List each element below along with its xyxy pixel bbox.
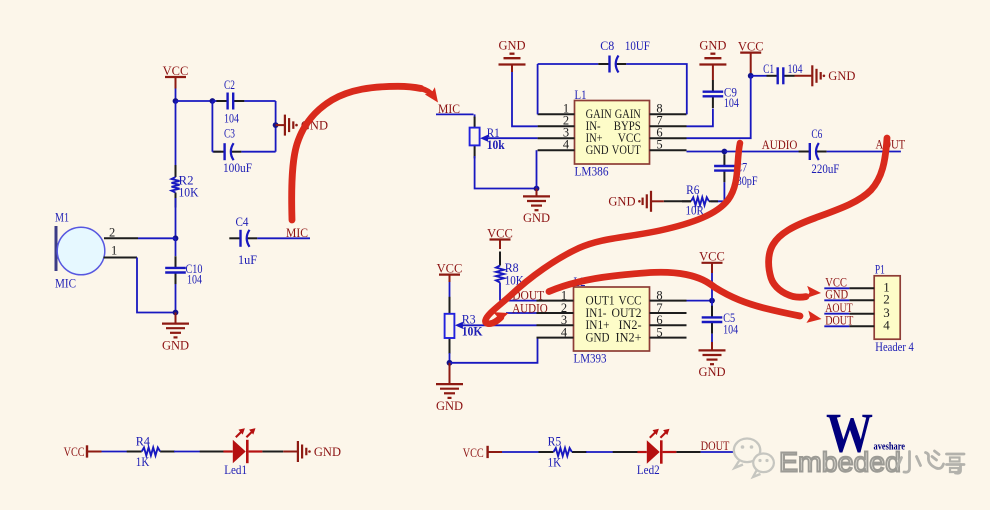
svg-text:LM386: LM386 bbox=[575, 165, 609, 179]
capacitor C2 bbox=[216, 93, 244, 110]
capacitor C5 bbox=[702, 306, 723, 334]
svg-text:GND: GND bbox=[523, 211, 550, 225]
ground GND (C5) bbox=[698, 342, 725, 379]
wire VCC rail down to node A bbox=[175, 89, 177, 102]
ground GND (above C9) bbox=[699, 39, 726, 81]
capacitor C8 bbox=[598, 56, 626, 73]
wire U1 pin7 to C9 bbox=[687, 109, 713, 127]
svg-text:R5: R5 bbox=[548, 434, 562, 448]
svg-text:VCC: VCC bbox=[437, 261, 463, 275]
capacitor C4 bbox=[229, 230, 257, 247]
svg-text:C2: C2 bbox=[224, 78, 235, 92]
wire R1 bottom to node F bbox=[475, 156, 537, 189]
node A junction (VCC rail / C2 branch) bbox=[173, 98, 179, 104]
svg-text:5: 5 bbox=[656, 325, 662, 339]
svg-text:104: 104 bbox=[788, 62, 804, 76]
ground GND (U1 pin2) bbox=[498, 39, 525, 73]
wire R3 bottom to node I bbox=[449, 353, 451, 363]
svg-text:DOUT: DOUT bbox=[701, 439, 730, 453]
wire mic pin2 to node D bbox=[138, 237, 176, 239]
svg-text:MIC: MIC bbox=[55, 277, 76, 291]
wire VCC to R5 bbox=[502, 451, 540, 453]
svg-text:GND: GND bbox=[699, 39, 726, 53]
svg-text:C1: C1 bbox=[763, 62, 774, 76]
wire mic pin1 down and right to node E bbox=[137, 258, 176, 313]
mic pin 2 stub bbox=[104, 237, 138, 239]
wire C2/C3 loop right edge bbox=[275, 101, 277, 152]
wire GND down to U1 pin2 bbox=[512, 72, 538, 126]
svg-text:10k: 10k bbox=[487, 138, 505, 152]
wire VCC to R4 bbox=[102, 451, 128, 453]
wire U1 pin4 down to node F bbox=[536, 150, 538, 188]
red annotation curve A (MIC to MIC) bbox=[292, 86, 443, 220]
wire node H to C6 bbox=[724, 151, 800, 153]
wire Led2 to DOUT net bbox=[701, 451, 735, 453]
wire VCC down to R3 bbox=[449, 282, 451, 297]
svg-text:Led1: Led1 bbox=[224, 463, 247, 477]
svg-text:AUDIO: AUDIO bbox=[762, 138, 798, 152]
svg-text:MIC: MIC bbox=[286, 226, 308, 240]
logo WeChat icon bbox=[734, 439, 774, 478]
svg-text:4: 4 bbox=[563, 138, 570, 152]
logo Embeded text bbox=[779, 447, 901, 478]
svg-text:VCC: VCC bbox=[163, 64, 189, 78]
node B junction (C2/C3 loop top-left) bbox=[210, 98, 216, 104]
connector P1 Header 4 body bbox=[874, 276, 900, 339]
svg-text:10K: 10K bbox=[179, 186, 199, 200]
microphone M1 bbox=[56, 226, 105, 275]
svg-text:5: 5 bbox=[656, 138, 662, 152]
ground GND (R3) bbox=[436, 363, 463, 413]
wire node A down to R2 bbox=[175, 101, 177, 177]
capacitor C10 bbox=[165, 256, 186, 284]
wire R2 down to node D bbox=[175, 198, 177, 238]
capacitor C9 bbox=[703, 80, 724, 108]
port VCC (Led1) bbox=[64, 445, 102, 459]
capacitor C1 bbox=[767, 67, 795, 84]
wire C3 bottom row left bbox=[212, 151, 221, 153]
power VCC (comparator supply) bbox=[699, 250, 725, 273]
svg-text:C8: C8 bbox=[600, 39, 614, 53]
wire MIC down to R1 bbox=[474, 114, 476, 118]
wire C7 down to R6 bbox=[711, 182, 724, 201]
svg-text:R4: R4 bbox=[136, 434, 151, 448]
wire C2 top row left bbox=[212, 100, 223, 102]
svg-text:100uF: 100uF bbox=[223, 161, 252, 175]
comparator U2 LM393 body bbox=[574, 287, 650, 351]
node F junction (R1 / U1 pin4 / GND) bbox=[534, 186, 540, 192]
svg-text:R6: R6 bbox=[686, 183, 699, 197]
wire node G to C1 bbox=[751, 75, 767, 77]
svg-text:GND: GND bbox=[162, 338, 189, 352]
capacitor C6 bbox=[799, 143, 827, 160]
svg-text:4: 4 bbox=[561, 325, 568, 339]
wire VCC down to node J bbox=[711, 273, 713, 301]
resistor R2 bbox=[172, 165, 180, 208]
wire R5 to Led2 bbox=[586, 451, 614, 453]
wire MIC net stub bbox=[436, 113, 474, 115]
svg-text:GND: GND bbox=[498, 39, 525, 53]
red annotation curve B (AUDIO to comparator AUDIO) bbox=[485, 143, 740, 324]
U1 pin name texts bbox=[586, 106, 642, 157]
svg-text:Led2: Led2 bbox=[637, 463, 660, 477]
svg-text:VCC: VCC bbox=[738, 39, 764, 53]
svg-text:VCC: VCC bbox=[64, 445, 85, 459]
svg-text:1uF: 1uF bbox=[238, 253, 257, 267]
wire R4 to Led1 bbox=[174, 451, 200, 453]
svg-text:104: 104 bbox=[724, 96, 740, 110]
svg-text:C3: C3 bbox=[224, 127, 235, 141]
ground GND (U1 pin4) bbox=[523, 189, 550, 226]
wire C8 row left bbox=[538, 63, 599, 65]
node D junction (mic pin2 / R2 / C4) bbox=[173, 235, 179, 241]
LED Led1 bbox=[223, 428, 262, 463]
wire VCC net stub at P1 bbox=[824, 287, 849, 289]
svg-text:GND: GND bbox=[828, 69, 855, 83]
LED Led2 bbox=[637, 429, 676, 464]
svg-text:LM393: LM393 bbox=[574, 351, 607, 365]
ground GND (Led1) bbox=[283, 441, 341, 462]
logo CJK characters bbox=[898, 451, 965, 473]
wire VCC down to U1 pin6 bbox=[687, 76, 751, 138]
op-amp U1 LM386 body bbox=[575, 101, 650, 165]
wire AUDIO net to U2 pin2 bbox=[506, 312, 537, 314]
svg-text:1: 1 bbox=[111, 244, 117, 258]
svg-text:GND: GND bbox=[698, 365, 725, 379]
node J junction (pin8 / VCC / C5) bbox=[709, 298, 715, 304]
power VCC (R8) bbox=[487, 226, 513, 249]
svg-text:GND: GND bbox=[825, 288, 848, 302]
U2 pin name texts bbox=[586, 292, 642, 344]
wire DOUT net stub at P1 bbox=[824, 325, 849, 327]
U2 left pins 1-4 bbox=[537, 288, 574, 339]
svg-text:C4: C4 bbox=[236, 215, 250, 229]
svg-text:L1: L1 bbox=[575, 88, 587, 102]
ground GND (mic) bbox=[162, 313, 189, 353]
resistor R8 bbox=[496, 252, 504, 283]
wire node D down to C10 bbox=[175, 238, 177, 256]
potentiometer R3 bbox=[445, 297, 537, 354]
node I junction (R3 / U2 pin4 / GND) bbox=[447, 360, 453, 366]
wire node J down to C5 bbox=[711, 301, 713, 306]
U2 right pins 8-5 bbox=[650, 288, 687, 339]
svg-text:4: 4 bbox=[883, 318, 890, 333]
svg-text:104: 104 bbox=[723, 323, 739, 337]
wire C5 down to GND bbox=[711, 334, 713, 342]
svg-text:GND: GND bbox=[436, 399, 463, 413]
Led2 cathode pin bbox=[676, 451, 700, 453]
wire C10 down to node E bbox=[175, 284, 177, 313]
resistor R5 bbox=[539, 448, 587, 456]
wire C8 row right and down to U1 pin8 bbox=[626, 64, 687, 114]
svg-text:104: 104 bbox=[224, 112, 240, 126]
U1 left pins 1-4 bbox=[538, 102, 575, 152]
wire C4 to MIC net label bbox=[257, 237, 310, 239]
wire DOUT net to U2 pin1 bbox=[500, 300, 537, 302]
svg-text:VCC: VCC bbox=[699, 250, 725, 264]
svg-text:10UF: 10UF bbox=[625, 39, 650, 53]
wire C2 to loop right edge bbox=[244, 100, 275, 102]
Led2 anode pin bbox=[613, 451, 638, 453]
svg-text:Header 4: Header 4 bbox=[875, 340, 914, 354]
svg-text:1K: 1K bbox=[136, 455, 150, 469]
wire AOUT net stub at P1 bbox=[824, 313, 849, 315]
red annotation curve D (DOUT to P1) bbox=[549, 272, 822, 325]
svg-text:2: 2 bbox=[109, 226, 115, 240]
wire node A to C2 branch bbox=[176, 100, 213, 102]
svg-text:AOUT: AOUT bbox=[876, 138, 906, 152]
power VCC (top-left rail) bbox=[163, 64, 189, 89]
power VCC (R3) bbox=[437, 261, 463, 282]
ground GND (R6) bbox=[608, 191, 663, 212]
wire U2 pin8 to node J bbox=[687, 300, 713, 302]
svg-text:DOUT: DOUT bbox=[825, 314, 853, 328]
wire C6 to AOUT bbox=[827, 151, 901, 153]
Led1 anode pin bbox=[200, 451, 224, 453]
resistor R4 bbox=[127, 448, 175, 456]
wire R8 down to DOUT node bbox=[499, 283, 501, 301]
svg-text:P1: P1 bbox=[875, 263, 885, 277]
power VCC (amp supply) bbox=[738, 39, 764, 74]
svg-text:IN2+: IN2+ bbox=[616, 329, 642, 344]
node C junction (loop right edge to GND) bbox=[273, 122, 279, 128]
svg-text:104: 104 bbox=[187, 273, 203, 287]
resistor R6 bbox=[682, 197, 718, 205]
P1 pins 1-4 bbox=[849, 280, 890, 333]
wire U1 pin1 up to C8 row bbox=[537, 64, 539, 114]
node E junction (C10 / mic pin1 / GND) bbox=[173, 310, 179, 316]
capacitor C7 bbox=[714, 154, 735, 182]
svg-text:GND: GND bbox=[586, 329, 610, 344]
wire C2/C3 loop left edge bbox=[211, 101, 213, 152]
wire C3 to loop right edge bbox=[241, 151, 275, 153]
svg-text:220uF: 220uF bbox=[811, 162, 839, 176]
wire GND net stub at P1 bbox=[824, 299, 849, 301]
svg-text:C6: C6 bbox=[811, 127, 822, 141]
capacitor C3 bbox=[213, 143, 241, 160]
mic pin 1 stub bbox=[104, 257, 138, 259]
wire U1 pin5 to node H bbox=[687, 151, 725, 153]
svg-text:M1: M1 bbox=[55, 211, 69, 225]
svg-text:Embeded: Embeded bbox=[779, 447, 901, 478]
svg-text:10K: 10K bbox=[462, 324, 483, 338]
red annotation curve C (AOUT to P1) bbox=[769, 138, 887, 299]
svg-text:1K: 1K bbox=[548, 456, 562, 470]
svg-text:GND: GND bbox=[608, 195, 635, 209]
ground GND (C2/C3 decoupling) bbox=[276, 115, 328, 136]
svg-text:GND: GND bbox=[586, 142, 609, 157]
potentiometer R1 bbox=[470, 117, 538, 159]
svg-text:VCC: VCC bbox=[487, 226, 513, 240]
ground GND (C1) bbox=[795, 65, 856, 86]
Led1 cathode pin bbox=[262, 451, 283, 453]
U1 right pins 8-5 bbox=[650, 102, 687, 152]
port VCC (Led2) bbox=[463, 446, 502, 460]
svg-text:VOUT: VOUT bbox=[612, 142, 641, 157]
node G junction (VCC / C1) bbox=[748, 73, 754, 79]
node H junction (VOUT / C7 / C6) bbox=[722, 149, 728, 155]
svg-text:VCC: VCC bbox=[463, 446, 484, 460]
wire R6 left lead bbox=[664, 200, 691, 202]
svg-text:GND: GND bbox=[314, 445, 341, 459]
wire U2 pin4 down and left to node I bbox=[450, 338, 538, 363]
